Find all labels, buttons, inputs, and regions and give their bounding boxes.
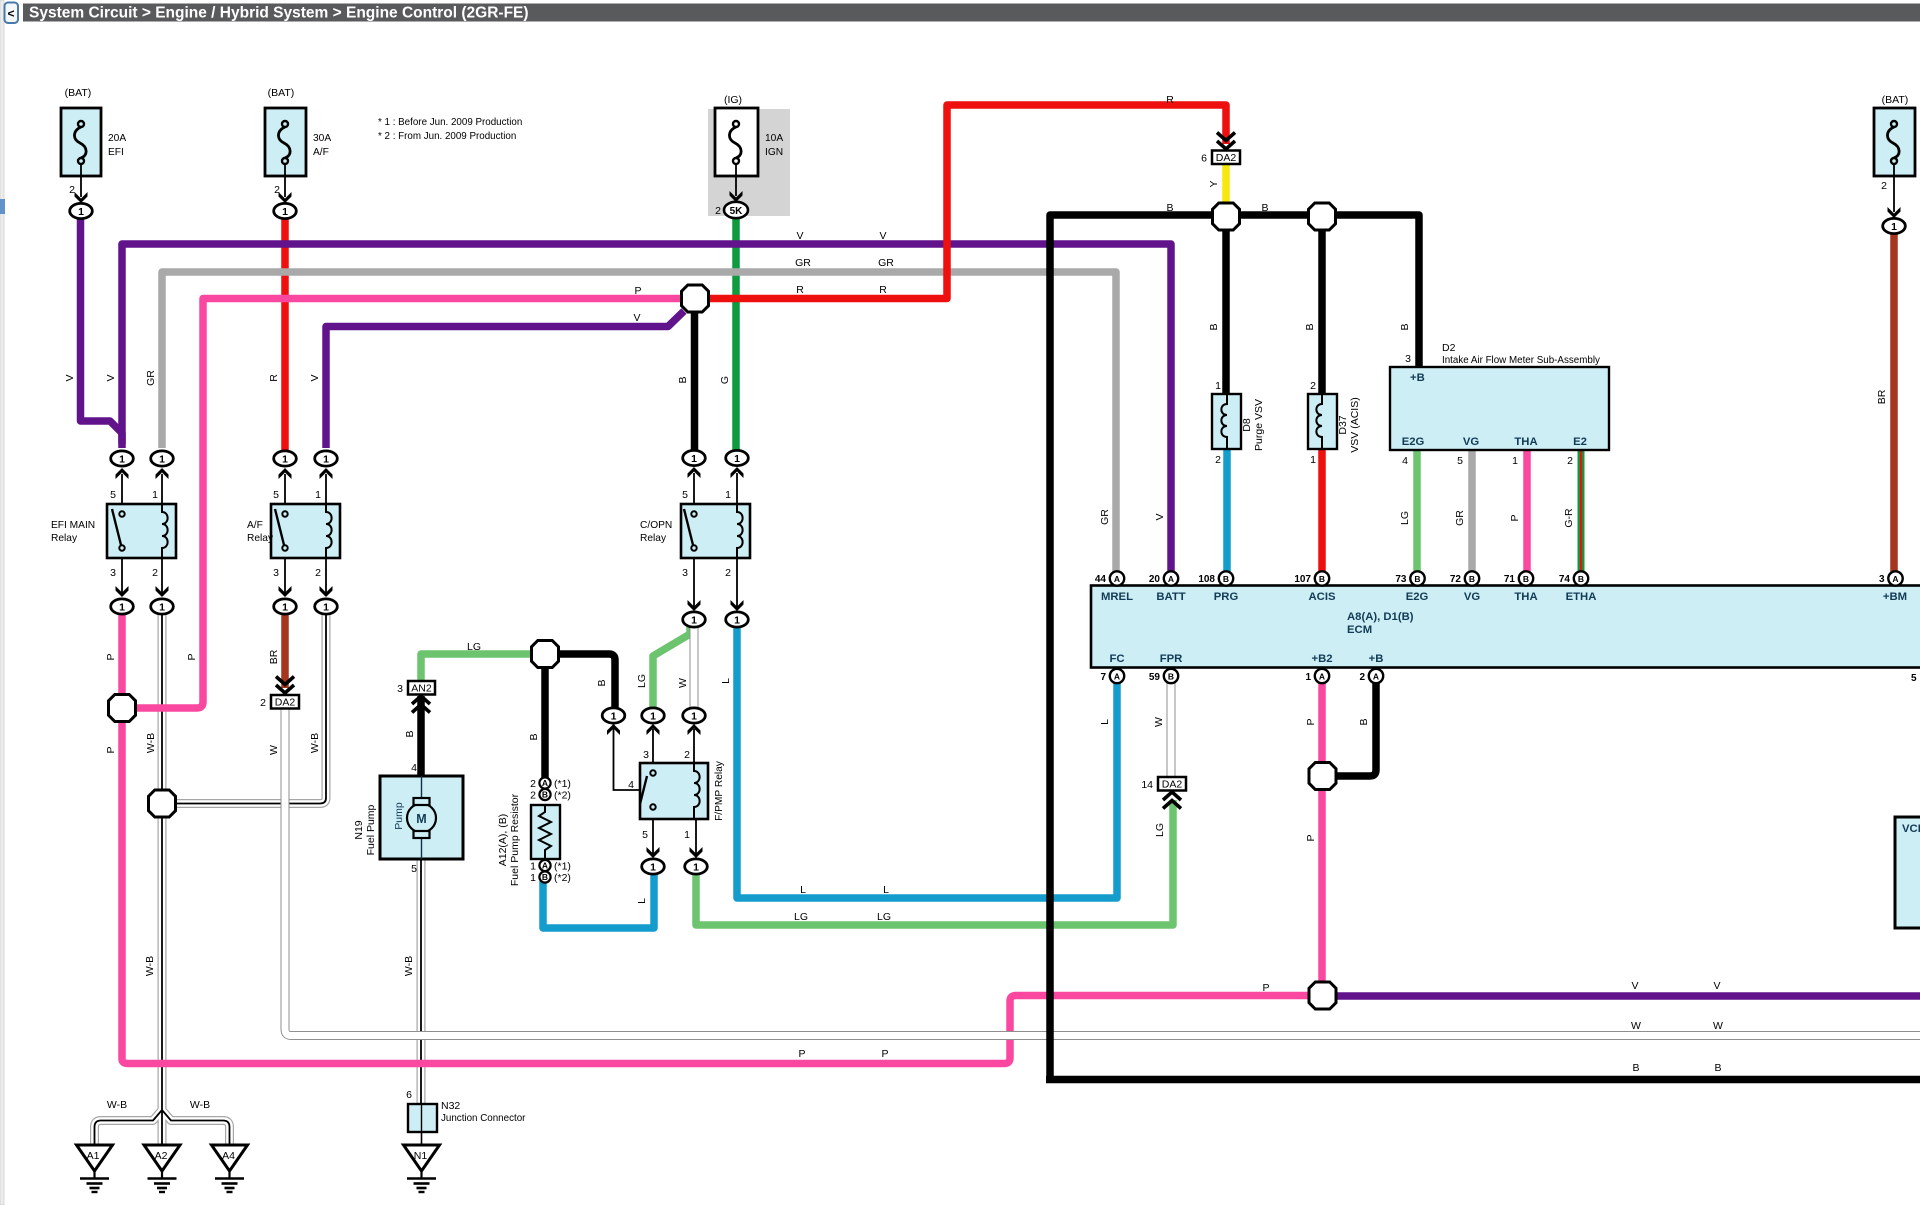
svg-text:B: B <box>1523 574 1529 584</box>
junction octagon: pink net below EFI MAIN relay <box>109 695 136 722</box>
svg-text:AN2: AN2 <box>411 683 432 695</box>
svg-text:V: V <box>309 374 321 381</box>
svg-text:6: 6 <box>406 1089 412 1101</box>
N32 junction connector <box>408 1104 437 1145</box>
ground A4 <box>212 1145 248 1192</box>
wire L: fuel pump resistor pin1 to F/PMP relay pin5 connector <box>543 873 654 928</box>
fuse 10A IGN <box>715 108 758 202</box>
svg-text:A: A <box>1373 672 1379 682</box>
svg-text:1: 1 <box>684 829 690 841</box>
horizontal wire color labels <box>107 94 1723 1111</box>
svg-text:V: V <box>1631 980 1638 992</box>
wire V: bottom octagon to right edge <box>1334 992 1920 1000</box>
svg-text:Intake Air Flow Meter Sub-Asse: Intake Air Flow Meter Sub-Assembly <box>1442 355 1600 366</box>
wire B: octagon drop to D37 VSV pin2 <box>1318 230 1326 395</box>
svg-text:A4: A4 <box>222 1150 235 1162</box>
pin 1(A) +B2 <box>1315 669 1329 683</box>
svg-text:A: A <box>1168 574 1174 584</box>
svg-text:5: 5 <box>110 489 116 501</box>
svg-text:2: 2 <box>274 184 280 196</box>
wire B: main black bus (top run, right drop to D2 +B, left drop and bottom run) <box>1050 215 1419 1080</box>
svg-text:20A: 20A <box>108 133 126 144</box>
svg-text:(*1): (*1) <box>554 778 571 790</box>
svg-text:D37: D37 <box>1337 415 1349 434</box>
svg-text:P: P <box>1305 718 1317 725</box>
svg-text:P: P <box>1262 982 1269 994</box>
svg-text:5: 5 <box>1911 673 1917 684</box>
svg-text:VSV (ACIS): VSV (ACIS) <box>1349 397 1361 452</box>
svg-text:B: B <box>1304 323 1316 330</box>
svg-text:2: 2 <box>725 567 731 579</box>
svg-text:A: A <box>1114 574 1120 584</box>
wire R: D37 VSV pin1 to ECM ACIS <box>1318 449 1326 572</box>
wire P: branch octagon up to pink/red junction octagon at y298 <box>135 299 683 709</box>
svg-text:V: V <box>1713 980 1720 992</box>
connector 1 below F/PMP relay pin1 <box>685 859 708 874</box>
fuse (BAT) right <box>1874 108 1915 218</box>
svg-text:5: 5 <box>1457 455 1463 467</box>
svg-text:1: 1 <box>530 861 536 873</box>
svg-text:D2: D2 <box>1442 342 1456 354</box>
IG gray background panel <box>708 109 790 216</box>
pin 73(B) E2G <box>1410 571 1424 585</box>
svg-text:P: P <box>105 746 117 753</box>
svg-text:F/PMP Relay: F/PMP Relay <box>714 760 725 821</box>
svg-text:2: 2 <box>315 567 321 579</box>
svg-text:74: 74 <box>1559 574 1571 585</box>
wire W: ECM FPR to DA2 (14) <box>1167 683 1176 778</box>
svg-text:Relay: Relay <box>51 533 78 544</box>
svg-text:THA: THA <box>1514 436 1537 448</box>
connector 1 below EFI MAIN relay pin3 <box>111 599 134 614</box>
svg-text:V: V <box>633 312 640 324</box>
svg-text:G-R: G-R <box>1563 508 1575 528</box>
svg-text:A: A <box>542 778 548 788</box>
svg-text:L: L <box>1099 719 1111 725</box>
connector 1 below F/PMP relay pin5 <box>642 859 665 874</box>
svg-text:2: 2 <box>1215 454 1221 466</box>
svg-text:A1: A1 <box>87 1150 100 1162</box>
svg-text:2: 2 <box>260 697 266 709</box>
ECM pin numbers <box>1095 574 1917 684</box>
svg-text:1: 1 <box>1215 380 1221 392</box>
pin 7(A) FC <box>1110 669 1124 683</box>
fuse 20A EFI <box>61 108 101 203</box>
pin 59(B) FPR <box>1164 669 1178 683</box>
svg-text:IGN: IGN <box>765 147 783 158</box>
svg-text:M: M <box>416 812 426 826</box>
pin 4 link from B connector <box>614 723 641 790</box>
svg-text:LG: LG <box>1154 823 1166 837</box>
svg-text:3: 3 <box>110 567 116 579</box>
VSV D8 Purge <box>1212 394 1241 449</box>
connector 5K below fuse IGN <box>724 202 748 218</box>
svg-text:2: 2 <box>1310 380 1316 392</box>
svg-text:V: V <box>796 230 803 242</box>
fuel pump N19 <box>380 776 463 859</box>
svg-text:B: B <box>1358 718 1370 725</box>
connector 1 above F/PMP relay pin2 <box>683 708 706 723</box>
svg-text:Y: Y <box>1208 180 1220 187</box>
svg-text:B: B <box>1414 574 1420 584</box>
svg-text:5: 5 <box>642 829 648 841</box>
ECM box <box>1091 586 1920 668</box>
svg-text:+B2: +B2 <box>1311 653 1332 665</box>
connector 1 below C/OPN relay pin3 <box>683 612 706 627</box>
svg-text:V: V <box>64 374 76 381</box>
svg-text:73: 73 <box>1395 574 1407 585</box>
svg-text:G: G <box>719 376 731 384</box>
svg-text:2: 2 <box>1881 180 1887 192</box>
connector 1 on B wire to F/PMP pin4 <box>602 708 625 723</box>
svg-text:W: W <box>677 678 689 688</box>
wire BR: A/F relay pin3 to DA2 (2) <box>281 612 289 688</box>
svg-text:+B: +B <box>1369 653 1384 665</box>
DA2 box (2) below A/F relay <box>271 677 299 709</box>
svg-text:W-B: W-B <box>403 956 415 976</box>
svg-text:(*2): (*2) <box>554 872 571 884</box>
connector 1 above EFI MAIN relay pin5 <box>111 451 134 466</box>
wire LG: octagon to AN2 (3) <box>421 654 532 682</box>
svg-text:2: 2 <box>69 184 75 196</box>
svg-text:B: B <box>1578 574 1584 584</box>
svg-text:Relay: Relay <box>247 533 274 544</box>
svg-text:5K: 5K <box>730 206 744 217</box>
wire V: 20A EFI fuse to EFI MAIN relay pin5 (elbow join) <box>81 218 123 444</box>
svg-text:B: B <box>1166 202 1173 214</box>
svg-text:E2G: E2G <box>1406 591 1429 603</box>
svg-text:R: R <box>796 284 804 296</box>
svg-text:A: A <box>1319 672 1325 682</box>
svg-text:W: W <box>268 745 280 755</box>
wire P: D2 THA to ECM THA <box>1523 450 1531 572</box>
connector 1 below fuse BAT right <box>1883 218 1906 233</box>
svg-text:B: B <box>1632 1062 1639 1074</box>
svg-text:W-B: W-B <box>145 733 157 753</box>
svg-text:Relay: Relay <box>640 533 667 544</box>
pin 20(A) BATT <box>1164 571 1178 585</box>
svg-text:20: 20 <box>1149 574 1161 585</box>
wire W: A/F relay DA2 down and right edge run y=1035 <box>285 709 1920 1036</box>
svg-text:DA2: DA2 <box>275 697 296 709</box>
svg-text:ETHA: ETHA <box>1566 591 1597 603</box>
junction octagon: P/V node lower right <box>1309 982 1336 1009</box>
svg-text:D8: D8 <box>1241 418 1253 432</box>
svg-text:3: 3 <box>397 683 403 695</box>
wire G-R: D2 E2 to ECM ETHA <box>1578 450 1585 572</box>
wire Y: DA2 to black junction octagon <box>1222 163 1230 203</box>
svg-text:THA: THA <box>1514 591 1537 603</box>
svg-text:V: V <box>879 230 886 242</box>
junction octagon: W-B net below EFI MAIN relay <box>149 790 176 817</box>
DA2 box (14) below ECM FPR <box>1158 777 1186 809</box>
svg-text:W: W <box>1713 1020 1723 1032</box>
svg-text:1: 1 <box>725 489 731 501</box>
connector 1 below C/OPN relay pin2 <box>726 612 749 627</box>
pin 2(A) +B <box>1369 669 1383 683</box>
title bar <box>23 4 1920 22</box>
pin 3(A) +BM <box>1888 571 1902 585</box>
svg-text:C/OPN: C/OPN <box>640 520 672 531</box>
ground A2 <box>144 1145 180 1192</box>
wire B: AN2 to fuel pump pin4 <box>417 696 425 777</box>
svg-text:DA2: DA2 <box>1162 779 1183 791</box>
wire L: D8 purge VSV pin2 to ECM PRG <box>1223 449 1231 572</box>
connector 1 below A/F relay pin3 <box>274 599 297 614</box>
wire P: EFI MAIN relay pin3 down, across bottom, up to octagon near ECM <box>122 612 1310 1064</box>
svg-text:44: 44 <box>1095 574 1107 585</box>
pin 71(B) THA <box>1519 571 1533 585</box>
svg-text:P: P <box>186 653 198 660</box>
svg-text:N19: N19 <box>353 820 365 839</box>
svg-text:DA2: DA2 <box>1216 152 1237 164</box>
wire B: pink/red octagon down to C/OPN relay pin5 connector <box>691 311 699 452</box>
svg-text:B: B <box>528 733 540 740</box>
pin 44(A) MREL <box>1110 571 1124 585</box>
svg-text:ACIS: ACIS <box>1309 591 1336 603</box>
svg-text:3: 3 <box>1405 353 1411 365</box>
wire B: LG/B octagon right then down to F/PMP pin4 connector <box>545 654 615 778</box>
pin 107(B) ACIS <box>1315 571 1329 585</box>
ground A1 <box>77 1145 113 1192</box>
svg-text:V: V <box>1154 513 1166 520</box>
relay A/F <box>271 468 340 597</box>
svg-text:P: P <box>1305 834 1317 841</box>
svg-text:72: 72 <box>1450 574 1462 585</box>
wire B: octagon drop to D8 purge VSV pin1 <box>1222 230 1230 395</box>
svg-text:P: P <box>634 285 641 297</box>
svg-text:VCP: VCP <box>1902 823 1920 835</box>
svg-text:6: 6 <box>1201 153 1207 165</box>
connector 1 above EFI MAIN relay pin1 <box>151 451 174 466</box>
connector 1 below A/F relay pin2 <box>315 599 338 614</box>
svg-text:B: B <box>1399 323 1411 330</box>
svg-text:EFI: EFI <box>108 147 124 158</box>
wire W-B: fuel pump pin5 to N32 junction connector <box>417 860 426 1104</box>
svg-text:FC: FC <box>1109 653 1124 665</box>
svg-text:GR: GR <box>145 370 157 386</box>
svg-text:R: R <box>1166 94 1174 106</box>
svg-text:+BM: +BM <box>1883 591 1907 603</box>
svg-text:A/F: A/F <box>247 520 263 531</box>
svg-text:GR: GR <box>1099 509 1111 525</box>
D2 intake air flow meter box <box>1390 367 1609 450</box>
svg-text:30A: 30A <box>313 133 331 144</box>
svg-text:B: B <box>1168 672 1174 682</box>
svg-text:(BAT): (BAT) <box>65 87 92 99</box>
junction octagon: P/B node below ECM +B2 <box>1309 763 1336 790</box>
svg-text:W: W <box>1631 1020 1641 1032</box>
svg-text:(BAT): (BAT) <box>1882 94 1909 106</box>
svg-text:W-B: W-B <box>309 733 321 753</box>
svg-text:B: B <box>1261 202 1268 214</box>
svg-text:14: 14 <box>1141 779 1153 791</box>
wire W: C/OPN pin3 connector to F/PMP pin2 connector <box>690 625 699 710</box>
svg-text:4: 4 <box>628 779 634 791</box>
svg-text:B: B <box>1714 1062 1721 1074</box>
svg-text:P: P <box>105 653 117 660</box>
connector 1 below fuse EFI <box>70 203 93 218</box>
svg-text:B: B <box>1223 574 1229 584</box>
svg-text:108: 108 <box>1198 574 1215 585</box>
wire R: octagon to top run and down to DA2 (6) <box>708 105 1226 299</box>
svg-text:1: 1 <box>315 489 321 501</box>
wire BR: (BAT) fuse right to ECM +BM <box>1890 232 1898 572</box>
junction octagon: P/R/V/B node right of IG fuse <box>682 285 709 312</box>
svg-text:4: 4 <box>1402 455 1408 467</box>
svg-text:B: B <box>1208 323 1220 330</box>
svg-text:2: 2 <box>530 778 536 790</box>
svg-text:W-B: W-B <box>107 1099 127 1111</box>
wire LG: D2 E2G to ECM E2G <box>1413 450 1421 572</box>
svg-text:N1: N1 <box>414 1150 428 1162</box>
svg-text:L: L <box>636 898 648 904</box>
fuse 30A A/F <box>265 108 306 203</box>
connector 1 above A/F relay pin1 <box>315 451 338 466</box>
svg-text:A: A <box>542 861 548 871</box>
svg-text:VG: VG <box>1463 436 1480 448</box>
svg-text:BR: BR <box>1876 389 1888 404</box>
svg-text:MREL: MREL <box>1101 591 1133 603</box>
svg-text:FPR: FPR <box>1160 653 1183 665</box>
back button <box>5 3 19 24</box>
svg-text:EFI MAIN: EFI MAIN <box>51 520 95 531</box>
svg-text:L: L <box>883 884 889 896</box>
svg-text:B: B <box>404 730 416 737</box>
svg-text:W-B: W-B <box>190 1099 210 1111</box>
svg-text:71: 71 <box>1504 574 1516 585</box>
wire GR: horizontal run y=272 to ECM MREL <box>162 272 1116 572</box>
svg-text:L: L <box>720 678 732 684</box>
svg-text:B: B <box>542 790 548 800</box>
svg-text:P: P <box>1509 514 1521 521</box>
fuel pump resistor A12 <box>531 777 560 882</box>
svg-text:(*1): (*1) <box>554 861 571 873</box>
svg-text:B: B <box>677 376 689 383</box>
svg-text:2: 2 <box>530 790 536 802</box>
wire W-B: EFI MAIN relay pin2 down through octagon to ground split (A1,A2,A4) <box>95 612 327 1145</box>
svg-text:R: R <box>879 284 887 296</box>
svg-text:PRG: PRG <box>1214 591 1239 603</box>
svg-text:* 1 : Before Jun. 2009 Produc: * 1 : Before Jun. 2009 Production <box>378 117 522 128</box>
junction octagon: B bus node above D8 <box>1213 203 1240 230</box>
svg-text:1: 1 <box>1305 672 1311 683</box>
AN2 box (3) above fuel pump <box>408 681 435 713</box>
svg-text:A12(A), (B): A12(A), (B) <box>497 814 509 867</box>
wire G: IGN 5K to C/OPN relay pin1 connector <box>732 218 740 452</box>
wire LG: F/PMP relay pin1 to ECM FPR via DA2 (14) <box>696 800 1173 925</box>
svg-text:2: 2 <box>1359 672 1365 683</box>
pin 74(B) ETHA <box>1574 571 1588 585</box>
wire B: ECM +B down-left to pink junction octagon <box>1335 682 1376 776</box>
wire V: A/F relay pin1 to octagon junction (diagonal) <box>326 311 684 448</box>
svg-text:System Circuit > Engine / Hybr: System Circuit > Engine / Hybrid System … <box>29 5 529 22</box>
DA2 box (6) top right <box>1212 133 1240 165</box>
svg-text:ECM: ECM <box>1347 624 1372 636</box>
svg-text:3: 3 <box>643 749 649 761</box>
svg-text:2: 2 <box>684 749 690 761</box>
svg-text:* 2 : From Jun. 2009 Producti: * 2 : From Jun. 2009 Production <box>378 131 516 142</box>
svg-text:59: 59 <box>1149 672 1161 683</box>
connector 1 above C/OPN relay pin1 <box>726 450 749 465</box>
svg-text:1: 1 <box>1310 454 1316 466</box>
svg-text:B: B <box>542 872 548 882</box>
svg-text:1: 1 <box>1512 455 1518 467</box>
svg-text:3: 3 <box>682 567 688 579</box>
svg-text:5: 5 <box>411 863 417 875</box>
svg-text:A/F: A/F <box>313 147 329 158</box>
svg-text:107: 107 <box>1294 574 1311 585</box>
svg-text:A8(A), D1(B): A8(A), D1(B) <box>1347 611 1414 623</box>
svg-text:E2G: E2G <box>1402 436 1425 448</box>
svg-text:7: 7 <box>1100 672 1106 683</box>
svg-text:1: 1 <box>152 489 158 501</box>
svg-text:1: 1 <box>530 872 536 884</box>
VSV D37 ACIS <box>1308 394 1337 449</box>
svg-text:5: 5 <box>273 489 279 501</box>
svg-text:4: 4 <box>411 762 417 774</box>
svg-text:Junction Connector: Junction Connector <box>441 1113 526 1124</box>
relay pin numbers <box>110 489 731 841</box>
svg-text:P: P <box>881 1048 888 1060</box>
svg-text:Pump: Pump <box>393 802 405 830</box>
svg-text:2: 2 <box>152 567 158 579</box>
svg-text:(IG): (IG) <box>724 94 742 106</box>
svg-text:L: L <box>800 884 806 896</box>
svg-text:(*2): (*2) <box>554 790 571 802</box>
relay C/OPN <box>681 467 750 611</box>
svg-text:3: 3 <box>1879 574 1885 585</box>
svg-text:LG: LG <box>1399 511 1411 525</box>
svg-text:V: V <box>105 374 117 381</box>
svg-text:BR: BR <box>268 649 280 664</box>
svg-text:A: A <box>1114 672 1120 682</box>
svg-text:3: 3 <box>273 567 279 579</box>
vertical wire color labels (rotated) <box>64 180 1888 976</box>
wire P: ECM +B2 down through junction octagon to bottom octagon <box>1318 682 1326 984</box>
svg-text:<: < <box>7 7 14 21</box>
relay F/PMP <box>607 723 708 858</box>
connector 1 above C/OPN relay pin5 <box>683 450 706 465</box>
wire LG: C/OPN pin3 connector down to F/PMP pin3 connector <box>653 625 690 710</box>
svg-text:B: B <box>596 679 608 686</box>
ground N1 <box>404 1145 440 1192</box>
svg-text:5: 5 <box>682 489 688 501</box>
svg-text:LG: LG <box>877 911 891 923</box>
svg-text:Fuel Pump Resistor: Fuel Pump Resistor <box>509 793 521 886</box>
junction octagon: LG/B node above fuel pump resistor <box>532 641 559 668</box>
svg-text:W: W <box>1153 717 1165 727</box>
svg-text:A2: A2 <box>155 1150 168 1162</box>
wire GR: D2 VG to ECM VG <box>1468 450 1476 572</box>
svg-text:LG: LG <box>636 674 648 688</box>
svg-text:10A: 10A <box>765 133 783 144</box>
svg-text:2: 2 <box>715 205 721 217</box>
pin 72(B) VG <box>1465 571 1479 585</box>
svg-text:R: R <box>268 374 280 382</box>
relay EFI MAIN <box>107 468 176 597</box>
svg-text:B: B <box>1469 574 1475 584</box>
svg-text:GR: GR <box>795 257 811 269</box>
svg-text:LG: LG <box>467 641 481 653</box>
svg-text:N32: N32 <box>441 1100 460 1112</box>
svg-text:P: P <box>798 1048 805 1060</box>
connector 1 above F/PMP relay pin3 <box>642 708 665 723</box>
connector 1 below fuse A/F <box>274 203 297 218</box>
svg-text:2: 2 <box>1567 455 1573 467</box>
svg-text:B: B <box>1319 574 1325 584</box>
svg-text:E2: E2 <box>1573 436 1587 448</box>
